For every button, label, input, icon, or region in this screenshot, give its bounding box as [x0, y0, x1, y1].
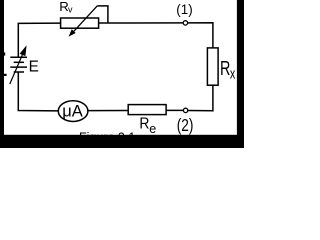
variable resistor R_v wiper arrow — [69, 6, 98, 37]
resistor R_e body — [128, 105, 166, 115]
variable resistor R_v body — [61, 18, 99, 28]
resistor R_x body — [207, 48, 218, 85]
wire: left rail from top corner down to battery top plate — [18, 23, 60, 57]
svg-text:(2): (2) — [177, 116, 194, 135]
svg-text:v: v — [68, 4, 73, 14]
node (2) open terminal — [183, 108, 187, 112]
label R_x — [220, 57, 236, 82]
svg-text:R: R — [139, 116, 149, 133]
ammeter body — [58, 101, 88, 122]
scan border right — [237, 0, 244, 148]
wire: Rv wiper bracket to output wire — [97, 6, 108, 23]
svg-text:x: x — [230, 65, 236, 82]
svg-text:(1): (1) — [176, 2, 192, 17]
scan border bottom — [0, 135, 244, 148]
label R_e — [139, 116, 156, 136]
wire: node (2) to Re right terminal — [166, 109, 183, 111]
wire: ammeter left to bottom-left corner up to battery bottom plate — [18, 72, 58, 111]
wire: Rx bottom to bottom-right corner to node (2) — [188, 85, 213, 111]
battery E variable arrow — [10, 45, 27, 84]
wire: node (1) to top-right corner down to Rx top — [188, 23, 213, 48]
svg-text:e: e — [149, 122, 156, 136]
svg-text:μA: μA — [62, 102, 83, 120]
wire: Rv right terminal to node (1) — [99, 22, 183, 24]
wire: Re left terminal to ammeter — [88, 110, 128, 112]
battery E plates — [10, 57, 27, 72]
scan border left — [0, 0, 4, 148]
svg-text:E: E — [29, 58, 39, 75]
svg-text:R: R — [220, 57, 230, 80]
node (1) open terminal — [183, 21, 187, 25]
